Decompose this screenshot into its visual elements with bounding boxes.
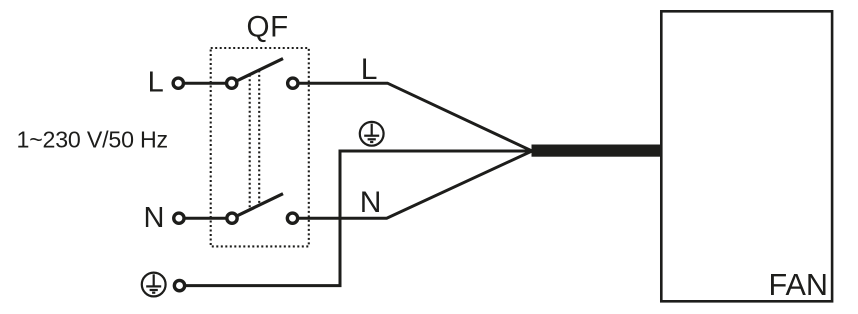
svg-text:L: L xyxy=(148,66,164,98)
terminal L xyxy=(173,78,183,88)
wire PE: terminal to riser to cable junction xyxy=(186,151,532,286)
wire N: terminal to switch contact xyxy=(185,217,225,220)
earth symbol left xyxy=(142,273,166,297)
wire N: switch output to cable junction xyxy=(299,151,532,218)
wire L: terminal to switch contact xyxy=(185,82,225,85)
switch contact N right xyxy=(287,213,297,223)
earth symbol mid xyxy=(360,122,384,146)
thick supply cable to FAN xyxy=(532,145,662,157)
breaker mechanical linkage dashed lines xyxy=(249,75,251,210)
svg-text:L: L xyxy=(361,53,378,86)
FAN enclosure box xyxy=(661,11,832,301)
svg-text:N: N xyxy=(360,186,382,219)
svg-text:N: N xyxy=(144,202,165,234)
svg-text:FAN: FAN xyxy=(769,268,829,302)
breaker QF dashed outline xyxy=(211,48,309,246)
switch lever pole L xyxy=(238,59,283,81)
terminal PE xyxy=(174,280,184,290)
terminal N xyxy=(174,213,184,223)
switch contact N left xyxy=(227,213,237,223)
switch contact L right xyxy=(288,78,298,88)
switch contact L left xyxy=(227,78,237,88)
svg-text:QF: QF xyxy=(247,10,289,43)
wire L: switch output to cable junction xyxy=(299,83,532,151)
switch lever pole N xyxy=(238,194,283,216)
svg-text:1~230 V/50 Hz: 1~230 V/50 Hz xyxy=(17,127,168,153)
